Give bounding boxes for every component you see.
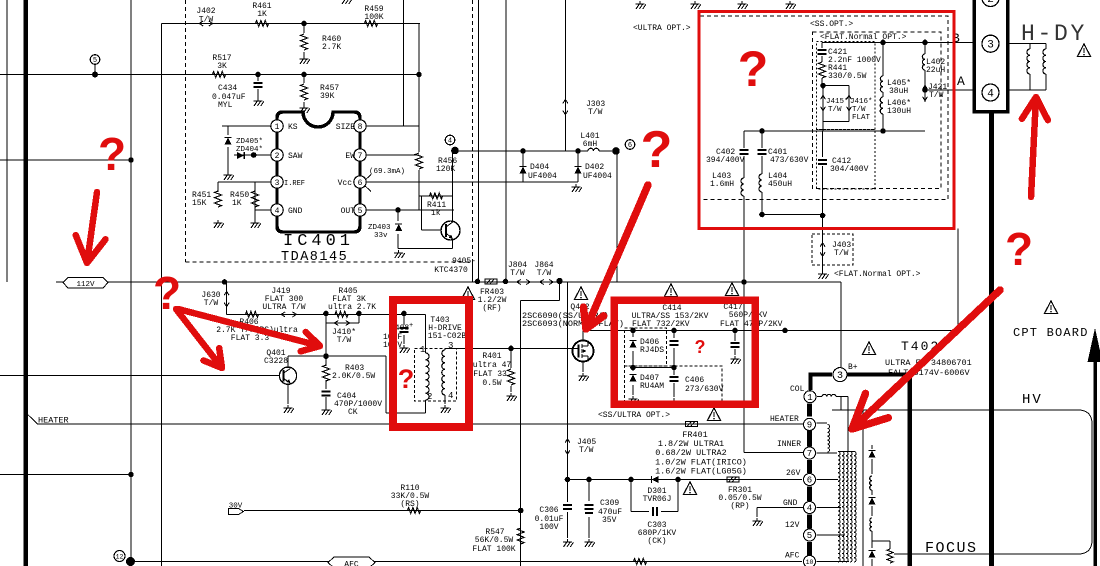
svg-text:HEATER: HEATER [38,416,69,426]
svg-text:FLAT 100K: FLAT 100K [472,545,515,554]
svg-text:H-DY: H-DY [1021,21,1087,47]
svg-text:3: 3 [987,40,994,52]
svg-text:1.6/2W FLAT(LG05G): 1.6/2W FLAT(LG05G) [655,467,747,477]
svg-text:12V: 12V [785,521,800,530]
svg-text:1K: 1K [232,199,242,208]
svg-text:EW: EW [345,152,355,161]
svg-text:ultra 47: ultra 47 [473,361,512,370]
svg-text:7: 7 [358,152,363,161]
svg-text:112V: 112V [76,281,95,289]
svg-text:?: ? [98,128,126,180]
svg-text:I.REF: I.REF [284,180,305,188]
svg-text:3: 3 [448,341,453,351]
svg-text:151-C02B: 151-C02B [428,332,467,341]
svg-text:2.7K: 2.7K [322,43,341,52]
svg-text:26V: 26V [786,469,801,478]
svg-text:(RP): (RP) [730,502,749,511]
svg-text:2SC6093(NORMAL/FLAT): 2SC6093(NORMAL/FLAT) [522,319,624,329]
svg-text:D402: D402 [585,163,604,172]
svg-text:UF4004: UF4004 [583,172,612,181]
svg-text:(69.3mA): (69.3mA) [369,168,405,176]
svg-text:?: ? [1005,223,1033,275]
svg-text:SAW: SAW [288,152,303,161]
svg-text:FLAT 732/2KV: FLAT 732/2KV [632,320,690,329]
svg-text:30V: 30V [229,503,243,511]
svg-text:GND: GND [288,207,303,216]
svg-text:+: + [409,322,413,330]
svg-text:HEATER: HEATER [770,415,799,424]
svg-text:CK: CK [348,408,358,417]
svg-text:3K: 3K [217,62,227,71]
svg-text:(RS): (RS) [400,500,419,509]
svg-text:38uH: 38uH [889,87,908,96]
svg-text:473/630V: 473/630V [770,156,809,165]
svg-text:TVR06J: TVR06J [643,495,672,504]
svg-text:39K: 39K [320,92,335,101]
svg-text:304/400V: 304/400V [830,165,869,174]
svg-text:3: 3 [837,371,843,382]
svg-text:(CK): (CK) [647,537,666,546]
svg-text:TDA8145: TDA8145 [281,250,348,265]
svg-text:10: 10 [806,559,814,566]
svg-text:IC401: IC401 [283,232,354,251]
svg-text:INNER: INNER [777,440,801,449]
svg-text:?: ? [398,364,415,394]
svg-text:CPT BOARD: CPT BOARD [1013,326,1089,340]
svg-text:3: 3 [275,179,280,188]
svg-text:1: 1 [807,393,812,403]
svg-text:T/W: T/W [199,16,214,25]
svg-text:A: A [957,74,965,89]
svg-text:FLAT: FLAT [852,114,871,122]
svg-text:T/W: T/W [537,269,552,278]
svg-text:1k: 1k [431,209,441,218]
svg-text:KTC4370: KTC4370 [434,266,468,275]
svg-text:450uH: 450uH [768,180,792,189]
svg-text:1K: 1K [257,10,267,19]
svg-text:C306: C306 [539,506,558,515]
svg-text:RJ4DS: RJ4DS [640,346,664,355]
svg-text:1: 1 [275,123,280,132]
svg-text:FALT 6174V-6006V: FALT 6174V-6006V [888,368,971,378]
svg-text:6mH: 6mH [583,140,598,149]
svg-text:330/0.5W: 330/0.5W [828,72,867,81]
svg-text:35V: 35V [602,516,617,525]
svg-text:C309: C309 [600,499,619,508]
svg-text:130uH: 130uH [887,107,911,116]
svg-text:FLAT 3.3: FLAT 3.3 [231,334,270,343]
svg-text:2: 2 [275,152,280,161]
svg-text:9405-: 9405- [452,257,476,266]
svg-text:?: ? [641,121,673,179]
svg-text:AFC: AFC [344,561,359,566]
svg-text:4: 4 [987,88,994,100]
svg-text:5: 5 [358,207,363,216]
svg-text:<SS/ULTRA OPT.>: <SS/ULTRA OPT.> [598,411,670,420]
svg-text:COL: COL [790,385,805,394]
svg-text:22uH: 22uH [926,66,945,75]
svg-text:J415*: J415* [826,98,849,106]
svg-text:AFC: AFC [785,552,800,561]
svg-text:ultra 2.7K: ultra 2.7K [328,303,376,312]
svg-text:GND: GND [783,499,798,508]
svg-text:HV: HV [1022,392,1043,408]
svg-text:0.68/2W ULTRA2: 0.68/2W ULTRA2 [655,448,726,458]
svg-text:394/400V: 394/400V [706,156,745,165]
svg-text:4: 4 [448,138,452,146]
svg-text:OUT: OUT [341,207,356,216]
svg-text:RU4AM: RU4AM [640,382,664,391]
svg-text:470P/1000V: 470P/1000V [334,400,382,409]
svg-text:4: 4 [807,504,812,514]
svg-text:D404: D404 [530,163,549,172]
svg-text:560P/2KV: 560P/2KV [729,311,768,320]
svg-text:6: 6 [628,142,632,150]
svg-text:6: 6 [358,179,363,188]
svg-text:SIZE: SIZE [336,123,355,132]
svg-text:120K: 120K [436,165,455,174]
svg-text:12: 12 [116,553,124,560]
svg-text:<FLAT.Normal OPT.>: <FLAT.Normal OPT.> [834,270,921,279]
svg-text:R401: R401 [482,352,501,361]
svg-text:C406: C406 [685,376,704,385]
svg-text:0.5W: 0.5W [482,379,501,388]
svg-text:UF4004: UF4004 [528,172,557,181]
svg-text:<FLAT.Normal OPT.>: <FLAT.Normal OPT.> [820,33,907,42]
svg-text:C434: C434 [218,84,237,93]
svg-text:T/W: T/W [929,91,944,100]
svg-text:2: 2 [427,392,432,402]
svg-text:1: 1 [420,345,425,355]
svg-text:273/630V: 273/630V [685,385,724,394]
svg-text:56K/0.5W: 56K/0.5W [475,536,514,545]
svg-text:?: ? [738,41,769,97]
svg-text:T/W: T/W [579,446,594,455]
svg-text:4: 4 [448,391,453,401]
svg-text:T/W: T/W [337,336,352,345]
svg-text:FOCUS: FOCUS [925,540,978,557]
svg-text:C3228: C3228 [264,357,288,366]
svg-text:KS: KS [288,123,298,132]
svg-text:2.0K/0.5W: 2.0K/0.5W [332,372,375,381]
svg-text:8: 8 [358,123,363,132]
svg-text:1.6mH: 1.6mH [710,180,734,189]
svg-text:MYL: MYL [218,101,233,110]
svg-text:2: 2 [987,0,994,6]
svg-text:100K: 100K [364,13,383,22]
svg-text:15K: 15K [192,199,207,208]
svg-text:J416*: J416* [850,98,873,106]
svg-text:ULTRA T/W: ULTRA T/W [262,303,305,312]
svg-text:5: 5 [93,57,97,65]
svg-text:6: 6 [807,476,812,486]
svg-text:T/W: T/W [834,249,849,258]
svg-text:ZD403: ZD403 [368,224,391,232]
svg-text:T/W: T/W [588,108,603,117]
svg-text:100V: 100V [539,523,558,532]
svg-text:(RF): (RF) [482,304,501,313]
svg-text:<SS.OPT.>: <SS.OPT.> [810,20,853,29]
svg-text:B+: B+ [848,363,858,372]
svg-text:ZD404*: ZD404* [236,146,263,154]
svg-text:Vcc: Vcc [338,179,353,188]
svg-text:5: 5 [807,531,812,541]
svg-text:33v: 33v [374,232,388,240]
svg-text:?: ? [695,337,706,357]
svg-text:7: 7 [807,449,812,459]
svg-text:T/W: T/W [828,106,842,114]
svg-text:9: 9 [807,421,812,431]
svg-text:<ULTRA OPT.>: <ULTRA OPT.> [633,24,691,33]
svg-text:T/W: T/W [204,299,219,308]
svg-text:T/W: T/W [510,269,525,278]
svg-text:ZD405*: ZD405* [236,138,263,146]
svg-text:4: 4 [275,207,280,216]
svg-text:FLAT 33: FLAT 33 [473,370,507,379]
svg-text:T/W: T/W [852,106,866,114]
